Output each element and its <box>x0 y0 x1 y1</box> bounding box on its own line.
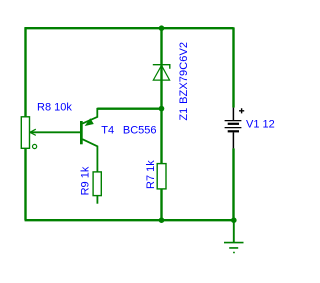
battery V1 plate short bottom <box>228 130 239 132</box>
wire R9 bottom stub <box>96 195 98 203</box>
battery V1 plate long lower <box>225 127 242 129</box>
battery V1 plate short upper <box>228 123 239 125</box>
wire zener top (junction to zener cathode) <box>160 28 162 108</box>
wire bottom rail <box>25 219 234 221</box>
wire left rail lower <box>24 148 26 220</box>
junction node R7 bottom rail <box>159 217 165 223</box>
battery V1 top lead <box>232 108 234 120</box>
ground bars <box>224 243 244 253</box>
resistor R9 body <box>93 172 101 196</box>
zener diode Z1 cathode bar with hook <box>153 65 170 69</box>
wire collector diagonal <box>82 139 97 172</box>
junction node battery bottom rail <box>231 217 237 223</box>
transistor T4 base bar <box>80 121 83 144</box>
wire right rail lower (battery - to bottom rail) <box>232 148 234 220</box>
battery V1 bottom lead <box>232 132 234 148</box>
junction node top (zener / top rail) <box>159 25 165 31</box>
wire emitter horizontal (node to transistor) <box>97 107 161 109</box>
ground lead <box>233 220 235 242</box>
potentiometer R8 circle mark <box>33 144 37 148</box>
svg-text:Z1: Z1 <box>178 108 190 121</box>
wire top rail <box>25 27 234 29</box>
junction node mid (zener / emitter / R7) <box>159 106 165 112</box>
potentiometer R8 body <box>21 117 29 149</box>
wire right rail upper (to battery +) <box>232 27 234 107</box>
wire emitter jog and diagonal <box>82 108 97 124</box>
resistor R7 body <box>157 164 166 189</box>
potentiometer R8 wiper arrowhead <box>30 129 36 135</box>
svg-text:R9 1k: R9 1k <box>80 166 92 195</box>
svg-text:BZX79C6V2: BZX79C6V2 <box>178 42 190 104</box>
svg-text:R7 1k: R7 1k <box>145 160 157 189</box>
svg-text:T4: T4 <box>101 125 114 137</box>
wire base (pot wiper to transistor base) <box>30 131 81 133</box>
battery V1 plate long top <box>225 120 242 122</box>
svg-text:BC556: BC556 <box>123 125 157 137</box>
wire left rail upper <box>24 27 26 117</box>
svg-text:V1 12: V1 12 <box>246 119 275 131</box>
wire R7 bottom to bottom rail <box>160 189 162 220</box>
battery V1 <box>225 108 245 149</box>
svg-text:R8 10k: R8 10k <box>37 102 72 114</box>
zener diode Z1 triangle <box>153 65 169 80</box>
wire node to R7 top <box>160 109 162 164</box>
transistor T4 emitter arrowhead (PNP, points to bar) <box>86 119 93 125</box>
battery V1 plus sign <box>239 108 244 113</box>
